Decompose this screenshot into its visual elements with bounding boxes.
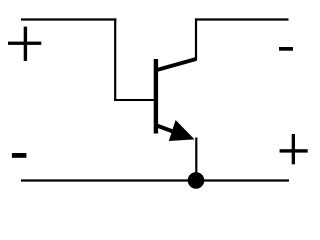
polarity label - (top-right) <box>279 47 293 51</box>
polarity label + (bottom-right) <box>280 134 308 164</box>
wire (top-right horizontal) <box>195 18 289 20</box>
transistor Q1 collector lead <box>155 59 196 71</box>
transistor Q1 base bar <box>154 59 158 134</box>
polarity label + (top-left) <box>8 27 41 61</box>
polarity label - (bottom-left) <box>12 153 27 158</box>
wire (base lead) <box>114 99 155 101</box>
wire (collector vertical riser) <box>195 18 197 60</box>
transistor Q1 emitter arrow <box>169 120 195 141</box>
wire (emitter vertical drop) <box>195 138 197 181</box>
wire (bottom horizontal) <box>21 179 289 181</box>
wire (left vertical drop to base) <box>114 18 116 101</box>
wire (top-left horizontal) <box>21 18 116 20</box>
transistor Q1 emitter lead <box>157 126 177 133</box>
node junction dot <box>188 172 205 189</box>
